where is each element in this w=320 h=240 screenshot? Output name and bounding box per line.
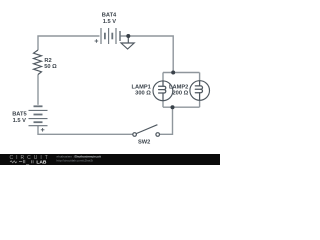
svg-text:BAT5: BAT5 — [12, 112, 26, 118]
svg-text:LAMP2: LAMP2 — [169, 85, 188, 91]
svg-text:LAMP1: LAMP1 — [132, 85, 151, 91]
svg-text:http://circuitlab.com/c2bat3t: http://circuitlab.com/c2bat3t — [57, 158, 94, 162]
svg-text:BAT4: BAT4 — [102, 13, 117, 19]
svg-text:50 Ω: 50 Ω — [44, 64, 57, 70]
svg-text:1.5 V: 1.5 V — [103, 19, 116, 25]
svg-text:1.5 V: 1.5 V — [13, 118, 26, 124]
svg-text:300 Ω: 300 Ω — [135, 91, 151, 97]
svg-text:R2: R2 — [44, 58, 51, 64]
svg-text:LAB: LAB — [36, 160, 47, 165]
svg-text:200 Ω: 200 Ω — [173, 91, 189, 97]
svg-text:SW2: SW2 — [138, 140, 150, 146]
